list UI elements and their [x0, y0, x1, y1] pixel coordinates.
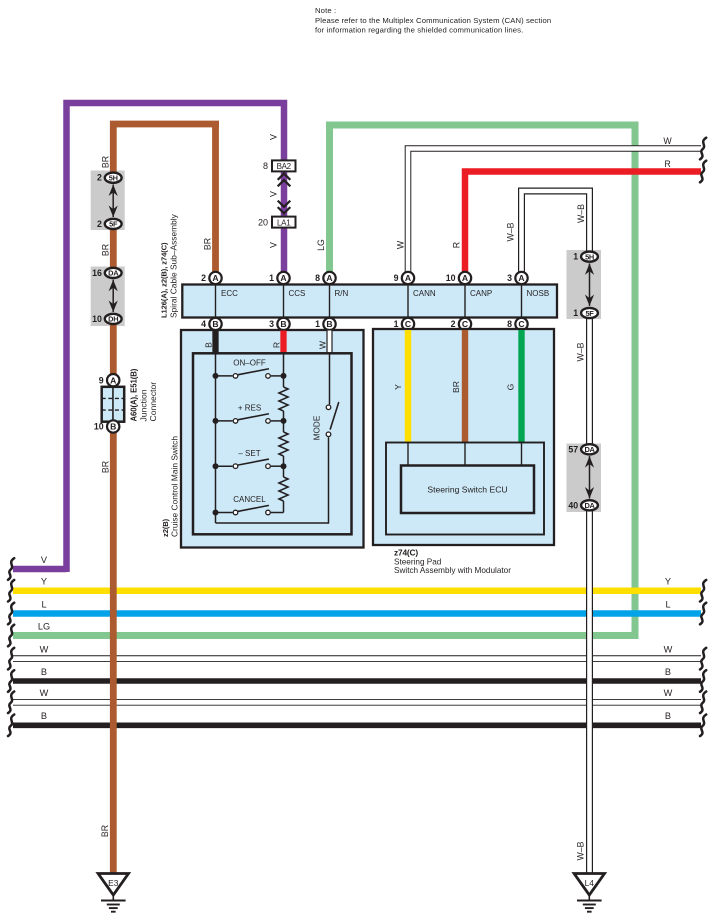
svg-text:C: C	[518, 319, 524, 329]
svg-text:1: 1	[315, 319, 320, 329]
svg-text:R: R	[452, 242, 462, 248]
connector band divider at pin column 2	[283, 285, 285, 318]
svg-text:CANN: CANN	[413, 289, 436, 298]
steering switch ECU box	[401, 466, 534, 514]
svg-text:A: A	[326, 273, 332, 283]
arrow link 5H-5F right	[585, 263, 594, 306]
svg-text:W: W	[396, 240, 406, 249]
svg-text:Y: Y	[41, 577, 47, 587]
wire B (black) stub pin 4(B) to switch	[212, 331, 218, 355]
svg-text:W: W	[664, 688, 673, 698]
svg-text:DH: DH	[108, 315, 118, 324]
svg-text:W–B: W–B	[506, 222, 516, 241]
svg-text:V: V	[41, 555, 48, 565]
wire BR (brown) segment top corner to connector 2(5H)	[110, 121, 117, 178]
svg-text:B: B	[665, 711, 671, 721]
wire segment	[283, 501, 285, 513]
svg-text:Y: Y	[665, 577, 671, 587]
break symbol L right	[700, 603, 706, 625]
break symbol W right lower	[700, 692, 706, 714]
wire V (violet) horizontal stub to left break	[13, 566, 67, 573]
wire BR (brown) top horizontal	[110, 121, 219, 128]
pin 8(A)	[315, 272, 336, 284]
svg-text:3: 3	[507, 273, 512, 283]
svg-text:8: 8	[315, 273, 320, 283]
svg-text:B: B	[212, 319, 218, 329]
svg-text:A: A	[518, 273, 524, 283]
svg-text:W–B: W–B	[576, 204, 586, 223]
break symbol B right lower	[700, 715, 706, 737]
svg-text:2: 2	[451, 319, 456, 329]
steering pad switch assembly z74(C) outer box	[373, 329, 554, 545]
wire G (green) from pin 8(C) to ECU	[518, 330, 524, 443]
svg-text:W: W	[663, 136, 672, 146]
switch + RES contact	[213, 414, 287, 424]
connector band divider at pin column 3	[329, 285, 331, 318]
svg-text:B: B	[280, 319, 286, 329]
break symbol Y left	[8, 580, 14, 602]
svg-text:MODE: MODE	[313, 415, 322, 440]
svg-text:R/N: R/N	[335, 289, 349, 298]
svg-text:B: B	[41, 711, 47, 721]
svg-text:Note :: Note :	[315, 6, 336, 15]
svg-text:40: 40	[568, 500, 578, 510]
svg-text:L126(A), z2(B), z74(C): L126(A), z2(B), z74(C)	[160, 242, 169, 318]
svg-text:5F: 5F	[585, 309, 594, 318]
connector 40(DA)	[568, 500, 597, 510]
lead from Y wire into ECU	[407, 443, 409, 466]
svg-text:L4: L4	[585, 878, 595, 888]
wire B (black) horizontal bus lower	[13, 722, 701, 728]
wire LG (light green) from spiral cable pin 8(A) across top and down to horizontal run	[13, 125, 635, 636]
resistor between ON-OFF and +RES	[279, 387, 288, 411]
cruise control main switch z2(B) outer box	[181, 330, 364, 548]
svg-text:10: 10	[92, 314, 102, 324]
svg-text:8: 8	[263, 161, 268, 171]
svg-text:BR: BR	[101, 156, 111, 168]
svg-text:20: 20	[258, 217, 268, 227]
connector 2(5H)	[97, 173, 122, 183]
svg-text:G: G	[506, 383, 516, 390]
steering ECU inner frame	[386, 443, 544, 535]
svg-text:4: 4	[201, 319, 206, 329]
break symbol B left	[8, 670, 14, 692]
svg-text:Spiral Cable Sub–Assembly: Spiral Cable Sub–Assembly	[169, 213, 179, 318]
svg-text:ON–OFF: ON–OFF	[233, 359, 266, 368]
svg-text:R: R	[272, 342, 282, 348]
MODE switch lower contact	[326, 432, 331, 437]
pin 10(A)	[446, 272, 471, 284]
svg-text:B: B	[41, 667, 47, 677]
svg-text:LG: LG	[316, 239, 326, 251]
break symbol B right	[700, 670, 706, 692]
connector band divider at pin column 1	[215, 285, 217, 318]
double chevron up	[278, 174, 291, 187]
svg-text:B: B	[110, 422, 116, 432]
svg-text:A: A	[462, 273, 468, 283]
cruise switch inner box	[193, 353, 352, 534]
svg-text:B: B	[326, 319, 332, 329]
connector 10(DH)	[92, 314, 121, 324]
shielded wire W-B segment 1(5F) to 57(DA)	[586, 313, 593, 449]
break symbol L left	[8, 603, 14, 625]
svg-text:C: C	[405, 319, 411, 329]
connector pair background 5H/5F left	[91, 171, 125, 231]
svg-text:1: 1	[269, 273, 274, 283]
svg-text:z74(C): z74(C)	[394, 548, 418, 558]
svg-text:LG: LG	[38, 621, 50, 631]
svg-text:BR: BR	[203, 238, 213, 250]
wire W (white) horizontal bus upper	[13, 655, 701, 662]
ground E3	[98, 874, 128, 912]
svg-text:W–B: W–B	[576, 841, 586, 860]
pin 4(B)	[201, 318, 222, 330]
double chevron down	[278, 201, 291, 214]
svg-text:DA: DA	[584, 501, 595, 510]
connector band divider at pin column 5	[464, 285, 466, 318]
svg-text:R: R	[664, 159, 670, 169]
svg-text:DA: DA	[584, 445, 595, 454]
wire W (white) horizontal bus lower	[13, 699, 701, 706]
svg-text:3: 3	[269, 319, 274, 329]
svg-text:9: 9	[394, 273, 399, 283]
svg-text:V: V	[269, 242, 279, 248]
svg-text:W: W	[40, 688, 49, 698]
svg-text:BR: BR	[101, 244, 111, 256]
svg-text:16: 16	[92, 268, 102, 278]
wire BR (brown) from pin 2(C) to ECU	[462, 330, 468, 443]
MODE switch blade	[330, 403, 338, 429]
wire W (white) stub pin 1(B) to switch	[326, 331, 332, 355]
svg-text:+ RES: + RES	[238, 404, 261, 413]
connector 1(5F)	[573, 308, 598, 318]
svg-text:Connector: Connector	[148, 382, 158, 422]
svg-text:for information regarding the: for information regarding the shielded c…	[315, 25, 523, 34]
svg-text:2: 2	[97, 173, 102, 183]
svg-text:ECC: ECC	[221, 289, 238, 298]
pin 1(B)	[315, 318, 336, 330]
junction connector A60(A)/E51(B) grid	[102, 387, 125, 422]
connector band L126(A)/z2(B)/z74(C) spiral cable sub-assembly	[182, 285, 557, 318]
svg-text:CANCEL: CANCEL	[233, 495, 266, 504]
connector 2(5F)	[97, 219, 122, 229]
svg-text:V: V	[269, 191, 279, 197]
MODE switch return wire to common	[216, 437, 329, 523]
wire segment	[283, 456, 285, 477]
wire BR (brown) vertical to spiral cable pin 2(A)	[212, 121, 219, 272]
svg-text:A: A	[405, 273, 411, 283]
switch CANCEL contact	[213, 506, 284, 516]
break symbol W left	[8, 648, 14, 670]
wire W (white) from spiral cable pin 9(A) to right break	[408, 149, 701, 273]
svg-text:E3: E3	[108, 878, 119, 888]
resistor between -SET and CANCEL	[279, 477, 288, 501]
svg-text:8: 8	[507, 319, 512, 329]
connector pair background DA/DH left	[91, 267, 125, 327]
svg-text:Switch Assembly with Modulator: Switch Assembly with Modulator	[394, 566, 511, 575]
svg-text:2: 2	[201, 273, 206, 283]
ground L4	[574, 874, 604, 912]
lead from BR wire into ECU	[464, 443, 466, 466]
svg-text:57: 57	[568, 444, 578, 454]
svg-text:A: A	[212, 273, 218, 283]
wire Y (yellow) horizontal bus	[13, 587, 701, 594]
connector 57(DA)	[568, 444, 597, 454]
break symbol LG left	[8, 625, 14, 647]
svg-text:BR: BR	[451, 381, 461, 393]
svg-text:CANP: CANP	[470, 289, 492, 298]
break symbol W left lower	[8, 692, 14, 714]
svg-text:5H: 5H	[109, 174, 118, 183]
wire V (violet) from left edge up across top to BA2/LA1 and pin 1(A)	[67, 103, 285, 572]
switch – SET contact	[213, 459, 287, 469]
note text	[315, 6, 551, 34]
svg-text:10: 10	[446, 273, 456, 283]
svg-text:10: 10	[94, 422, 104, 432]
pin 1(C)	[394, 318, 415, 330]
svg-text:W: W	[40, 644, 49, 654]
svg-text:LA1: LA1	[277, 218, 291, 227]
svg-text:NOSB: NOSB	[527, 289, 550, 298]
pin 3(B)	[269, 318, 290, 330]
arrow link 5H-5F	[109, 185, 118, 218]
svg-text:A: A	[280, 273, 286, 283]
svg-text:Y: Y	[393, 384, 403, 390]
svg-text:Steering Switch ECU: Steering Switch ECU	[427, 484, 507, 494]
switch ON–OFF contact	[213, 369, 287, 379]
svg-text:W: W	[318, 340, 328, 349]
break symbol W right	[700, 648, 706, 670]
wire R (red) from spiral cable pin 10(A) to right break	[465, 172, 701, 273]
svg-text:C: C	[462, 319, 468, 329]
wire R (red) stub pin 3(B) to switch	[280, 331, 286, 355]
break symbol R top right	[700, 161, 706, 183]
svg-text:2: 2	[97, 219, 102, 229]
svg-text:9: 9	[99, 375, 104, 385]
pin 10(B) junction	[94, 420, 119, 432]
wire BR (brown) segment 10(DH) to junction pin 9(A)	[110, 319, 117, 380]
switch resistor rail (right vertical segments)	[283, 353, 285, 387]
svg-text:B: B	[204, 342, 214, 348]
pin 2(A)	[201, 272, 222, 284]
svg-text:1: 1	[573, 252, 578, 262]
svg-text:DA: DA	[108, 269, 119, 278]
resistor between +RES and -SET	[279, 432, 288, 456]
switch common rail (left vertical)	[215, 353, 217, 523]
shielded wire W-B segment 40(DA) down to ground L4	[586, 505, 593, 874]
svg-text:W–B: W–B	[576, 342, 586, 361]
svg-text:5H: 5H	[585, 252, 594, 261]
arrow link DA-DH	[109, 280, 118, 312]
svg-text:A60(A), E51(B): A60(A), E51(B)	[130, 368, 139, 421]
break symbol B left lower	[8, 715, 14, 737]
wire BR (brown) segment 2(5F) to 16(DA)	[110, 224, 117, 273]
wire BR (brown) segment junction pin 10(B) down to ground E3	[110, 427, 117, 875]
wire L (blue) horizontal bus	[13, 610, 701, 617]
connector LA1 (pin 20)	[272, 217, 296, 228]
shielded wire W-B from spiral cable pin 3(A) over the top to connector 1(5H)	[522, 191, 590, 272]
svg-text:B: B	[665, 667, 671, 677]
pin 8(C)	[507, 318, 528, 330]
MODE switch upper contact	[326, 405, 331, 410]
MODE switch wire from pin 1(B)	[329, 353, 331, 404]
svg-text:– SET: – SET	[238, 449, 260, 458]
svg-text:BA2: BA2	[277, 162, 292, 171]
svg-text:BR: BR	[100, 825, 110, 837]
arrow link DA-DA right	[585, 456, 594, 498]
connector BA2 (pin 8)	[272, 160, 296, 171]
svg-text:1: 1	[394, 319, 399, 329]
connector band divider at pin column 4	[407, 285, 409, 318]
pin 2(C)	[451, 318, 472, 330]
svg-text:A: A	[110, 375, 116, 385]
svg-text:Please refer to the Multiplex: Please refer to the Multiplex Communicat…	[315, 16, 551, 25]
wire B (black) horizontal bus upper	[13, 678, 701, 684]
pin 3(A)	[507, 272, 528, 284]
svg-text:V: V	[269, 134, 279, 140]
connector 1(5H)	[573, 252, 598, 262]
pin 9(A)	[394, 272, 415, 284]
pin 9(A) junction	[99, 374, 120, 386]
svg-text:BR: BR	[101, 461, 111, 473]
svg-text:Junction: Junction	[139, 389, 149, 421]
svg-text:CCS: CCS	[289, 289, 306, 298]
svg-text:Cruise Control Main Switch: Cruise Control Main Switch	[170, 436, 180, 537]
break symbol W top right	[700, 138, 706, 160]
svg-text:1: 1	[573, 308, 578, 318]
break symbol Y right	[700, 580, 706, 602]
wire Y (yellow) from pin 1(C) to ECU	[405, 330, 411, 443]
svg-text:W: W	[664, 644, 673, 654]
connector pair background DA/DA right	[567, 444, 602, 513]
lead from G wire into ECU	[521, 443, 523, 466]
svg-text:L: L	[41, 599, 46, 609]
break symbol V left	[8, 558, 14, 580]
svg-text:L: L	[665, 599, 670, 609]
connector 16(DA)	[92, 268, 121, 278]
wire segment	[283, 411, 285, 432]
connector pair background 5H/5F right	[567, 250, 602, 319]
pin 1(A)	[269, 272, 290, 284]
svg-text:5F: 5F	[109, 220, 118, 229]
connector band divider at pin column 6	[521, 285, 523, 318]
